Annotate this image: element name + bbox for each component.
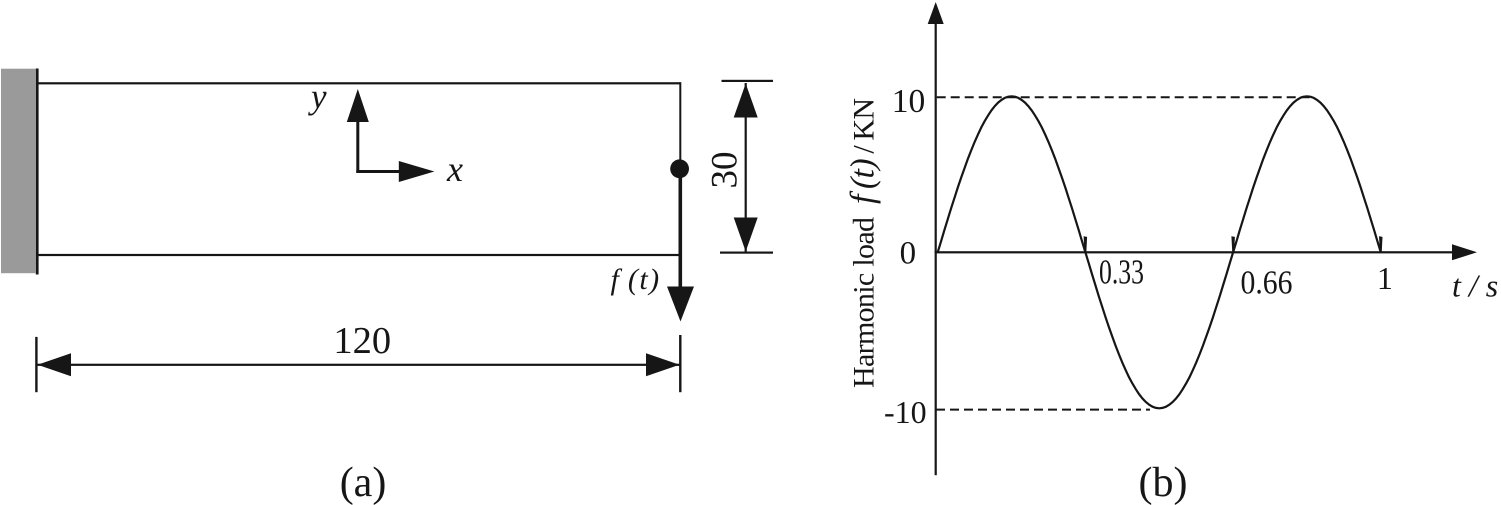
- svg-text:-10: -10: [884, 394, 927, 430]
- svg-text:t / s: t / s: [1452, 268, 1498, 304]
- beam right edge wire: [679, 82, 681, 169]
- y-axis arrow line of coordinate frame: [356, 120, 359, 173]
- x-axis arrowhead: [399, 161, 435, 182]
- dimension 30: down arrowhead: [734, 218, 758, 252]
- svg-text:x: x: [446, 149, 463, 189]
- fixed support wall (gray block): [1, 69, 36, 274]
- curve arrow barb at t=0.66: [1231, 236, 1235, 253]
- curve arrow barb at t=0.33: [1084, 236, 1088, 253]
- y-axis arrowhead: [347, 89, 369, 122]
- harmonic load sine curve: [938, 96, 1381, 408]
- curve arrow barb at t=1: [1379, 236, 1383, 253]
- svg-text:1: 1: [1377, 260, 1393, 296]
- svg-text:0.66: 0.66: [1241, 264, 1293, 301]
- dimension 30: top tick: [722, 80, 774, 82]
- dimension 30: up arrowhead: [734, 84, 758, 118]
- x-axis arrow line of coordinate frame: [356, 170, 401, 173]
- dashed level line at +10: [937, 96, 1310, 98]
- svg-text:0: 0: [900, 236, 917, 272]
- chart y-axis arrowhead: [928, 2, 944, 24]
- svg-text:(b): (b): [1139, 460, 1188, 505]
- svg-text:120: 120: [333, 320, 391, 362]
- beam bottom edge wire: [37, 254, 681, 256]
- dimension 120: right tick: [679, 335, 681, 392]
- dashed level line at -10: [936, 409, 1150, 411]
- svg-text:30: 30: [705, 152, 746, 189]
- fixed support edge line: [36, 69, 39, 275]
- chart y-axis line: [935, 20, 937, 475]
- chart x-axis arrowhead: [1452, 244, 1477, 260]
- dimension 120: line: [37, 364, 680, 366]
- dimension 30: bottom tick: [720, 252, 773, 254]
- beam top edge wire: [37, 82, 681, 84]
- svg-text:10: 10: [892, 83, 926, 120]
- force arrowhead: [667, 287, 694, 322]
- svg-text:Harmonic load f (t) / KN: Harmonic load f (t) / KN: [845, 98, 882, 388]
- svg-text:f (t): f (t): [611, 263, 661, 296]
- dimension 120: left arrowhead: [38, 353, 72, 376]
- node dot at load point: [670, 159, 689, 178]
- dimension 120: left tick: [35, 337, 37, 392]
- chart x-axis line: [935, 251, 1456, 253]
- svg-text:y: y: [308, 77, 327, 116]
- svg-text:0.33: 0.33: [1099, 252, 1144, 291]
- force line f(t): [679, 169, 683, 287]
- dimension 30: line: [745, 83, 747, 252]
- svg-text:(a): (a): [340, 460, 387, 505]
- dimension 120: right arrowhead: [646, 353, 680, 376]
